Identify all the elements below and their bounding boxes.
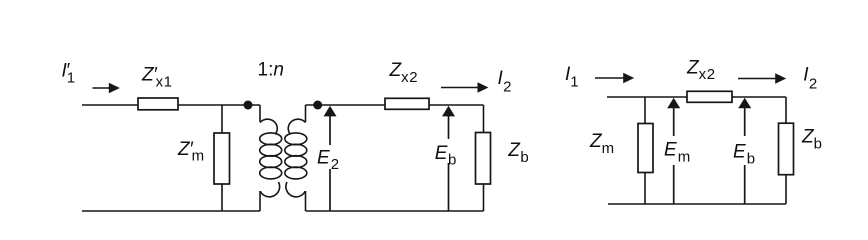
svg-text:Z′m: Z′m [177, 139, 205, 165]
svg-text:Zx2: Zx2 [389, 60, 419, 86]
svg-text:1:n: 1:n [258, 60, 284, 81]
svg-text:Zx2: Zx2 [686, 57, 716, 83]
svg-text:Zb: Zb [801, 127, 823, 153]
svg-text:I2: I2 [498, 68, 513, 96]
svg-text:E2: E2 [317, 147, 340, 173]
svg-text:Em: Em [664, 140, 691, 166]
svg-text:Zb: Zb [507, 140, 529, 166]
svg-text:Eb: Eb [435, 143, 457, 169]
svg-text:Eb: Eb [733, 142, 756, 168]
svg-text:Z′x1: Z′x1 [141, 65, 173, 91]
svg-text:Zm: Zm [589, 131, 615, 157]
svg-text:I′1: I′1 [62, 61, 76, 87]
svg-text:I2: I2 [803, 64, 818, 92]
svg-text:I1: I1 [565, 64, 579, 90]
